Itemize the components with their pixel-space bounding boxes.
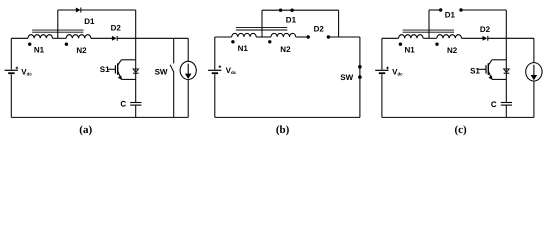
wire: left branch bottom (b) bbox=[214, 74, 216, 117]
wire: top branch down to rail (a) bbox=[135, 10, 137, 38]
core lines (c) bbox=[403, 30, 454, 32]
svg-text:(a): (a) bbox=[79, 124, 92, 136]
current source circle (a) bbox=[180, 61, 196, 79]
core lines (a) bbox=[32, 30, 83, 32]
inductor N1 (b) bbox=[232, 33, 256, 37]
svg-text:N1: N1 bbox=[34, 46, 45, 55]
node dot N2 polarity (b) bbox=[268, 40, 271, 43]
switch SW branch top (a) bbox=[173, 38, 175, 63]
node dot N2 polarity (a) bbox=[65, 43, 68, 46]
diode antiparallel of S1 (c) bbox=[504, 69, 510, 73]
node dot D1 right (b) bbox=[290, 9, 293, 12]
plus sign (c) bbox=[386, 67, 389, 70]
node dot D1 left (b) bbox=[279, 9, 282, 12]
svg-text:Vdc: Vdc bbox=[21, 67, 32, 76]
node dot D2 right (b) bbox=[327, 35, 330, 38]
wire: top branch right (c) bbox=[461, 9, 506, 11]
svg-text:Vdc: Vdc bbox=[392, 67, 403, 76]
wire: capacitor to bottom rail (a) bbox=[135, 105, 137, 117]
source Vdc plate short (c) bbox=[379, 72, 385, 74]
node dot D1 right (c) bbox=[459, 8, 462, 11]
wire: top branch down to rail (b) bbox=[338, 10, 340, 37]
wire: right branch (a) bbox=[187, 38, 189, 117]
capacitor C (a) bbox=[130, 103, 141, 106]
wire: S1 to capacitor (a) bbox=[135, 73, 137, 102]
svg-text:N1: N1 bbox=[405, 46, 416, 55]
wire: S1 branch upper (a) bbox=[135, 38, 137, 72]
svg-text:(b): (b) bbox=[276, 124, 290, 136]
svg-text:Vdc: Vdc bbox=[226, 66, 237, 75]
core lines (b) bbox=[236, 28, 287, 30]
node dot SW top (b) bbox=[358, 65, 362, 69]
wire: top branch left (a) bbox=[58, 9, 76, 11]
svg-text:C: C bbox=[491, 100, 497, 109]
inductor N2 (b) bbox=[271, 33, 296, 37]
wire: left branch top (b) bbox=[214, 37, 216, 70]
switch SW branch bottom (a) bbox=[173, 72, 175, 117]
wire: top branch left with D1 open (c) bbox=[429, 9, 441, 11]
source Vdc plate long (a) bbox=[5, 69, 18, 71]
current source arrow (a) bbox=[185, 64, 192, 79]
transistor S1 (a) bbox=[108, 60, 136, 80]
svg-text:S1: S1 bbox=[470, 66, 480, 75]
wire: top rail left segment (c) bbox=[382, 37, 399, 39]
source Vdc plate short (a) bbox=[8, 72, 14, 74]
switch SW blade (a) bbox=[170, 65, 174, 73]
node dot N1 polarity (c) bbox=[399, 43, 402, 46]
inductor N1 (a) bbox=[28, 35, 52, 39]
capacitor C (c) bbox=[501, 103, 512, 106]
wire: top branch (b) bbox=[262, 9, 339, 11]
svg-text:D2: D2 bbox=[480, 25, 491, 34]
wire: capacitor to bottom rail (c) bbox=[505, 105, 507, 117]
inductor N2 (c) bbox=[437, 35, 462, 39]
wire: top rail left segment (b) bbox=[215, 36, 232, 38]
wire: S1 branch upper (c) bbox=[505, 38, 507, 72]
wire: between windings (c) bbox=[423, 37, 437, 39]
wire: rail D2 to right edge (c) bbox=[488, 37, 534, 39]
wire: rail D2 to corner (b) bbox=[328, 36, 360, 38]
diode antiparallel of S1 (a) bbox=[133, 69, 139, 73]
source Vdc plate long (b) bbox=[208, 69, 221, 71]
wire: between windings (b) bbox=[256, 36, 271, 38]
svg-text:SW: SW bbox=[340, 73, 353, 82]
node dot N2 polarity (c) bbox=[435, 43, 438, 46]
svg-text:(c): (c) bbox=[454, 124, 467, 136]
wire: top rail left segment (a) bbox=[11, 37, 28, 39]
wire: left branch bottom (c) bbox=[381, 74, 383, 117]
svg-text:D1: D1 bbox=[84, 17, 95, 26]
svg-text:D2: D2 bbox=[314, 25, 325, 34]
diode D2 (a) bbox=[112, 36, 117, 41]
node dot SW bottom (b) bbox=[358, 75, 362, 79]
wire: left branch top (a) bbox=[10, 38, 12, 69]
current source circle (c) bbox=[526, 63, 542, 81]
svg-text:N2: N2 bbox=[76, 46, 87, 55]
svg-text:D1: D1 bbox=[286, 15, 297, 24]
wire: top branch down to rail (c) bbox=[505, 10, 507, 38]
diode D1 (a) bbox=[76, 8, 81, 13]
wire: left branch top (c) bbox=[381, 38, 383, 69]
svg-text:S1: S1 bbox=[100, 65, 110, 74]
svg-text:N2: N2 bbox=[447, 46, 458, 55]
node dot N1 polarity (a) bbox=[28, 43, 31, 46]
wire: center tap vertical (b) bbox=[261, 10, 263, 37]
node dot D1 left (c) bbox=[439, 8, 442, 11]
node dot N1 polarity (b) bbox=[231, 40, 234, 43]
wire: center tap vertical (a) bbox=[57, 10, 59, 38]
svg-text:SW: SW bbox=[155, 67, 168, 76]
inductor N2 (a) bbox=[66, 35, 91, 39]
source Vdc plate long (c) bbox=[375, 69, 388, 71]
wire: rail D2 to right edge (a) bbox=[117, 37, 188, 39]
diode D2 (c) bbox=[483, 36, 488, 41]
wire: rail N2 to D2 (a) bbox=[91, 37, 112, 39]
current source arrow (c) bbox=[531, 65, 538, 81]
node dot D2 left (b) bbox=[307, 35, 310, 38]
svg-text:D1: D1 bbox=[445, 11, 456, 20]
wire: S1 to capacitor (c) bbox=[505, 73, 507, 102]
svg-text:D2: D2 bbox=[111, 24, 122, 33]
wire: right branch (c) bbox=[533, 38, 535, 117]
transistor S1 (c) bbox=[478, 60, 506, 80]
switch SW branch closed (b) bbox=[359, 37, 361, 117]
wire: bottom rail (c) bbox=[382, 116, 534, 118]
plus sign (a) bbox=[16, 67, 19, 70]
svg-text:C: C bbox=[120, 100, 126, 109]
svg-text:N2: N2 bbox=[280, 45, 291, 54]
plus sign (b) bbox=[219, 65, 222, 68]
wire: rail N2 to D2 (c) bbox=[462, 37, 483, 39]
wire: between windings (a) bbox=[53, 37, 67, 39]
wire: center tap vertical (c) bbox=[428, 10, 430, 38]
svg-text:N1: N1 bbox=[238, 44, 249, 53]
inductor N1 (c) bbox=[399, 35, 423, 39]
wire: rail N2 to D2 gap (b) bbox=[296, 36, 309, 38]
wire: bottom rail (b) bbox=[215, 116, 360, 118]
wire: left branch bottom (a) bbox=[10, 74, 12, 117]
wire: top branch right (a) bbox=[81, 9, 136, 11]
source Vdc plate short (b) bbox=[212, 72, 218, 74]
wire: bottom rail (a) bbox=[11, 116, 188, 118]
